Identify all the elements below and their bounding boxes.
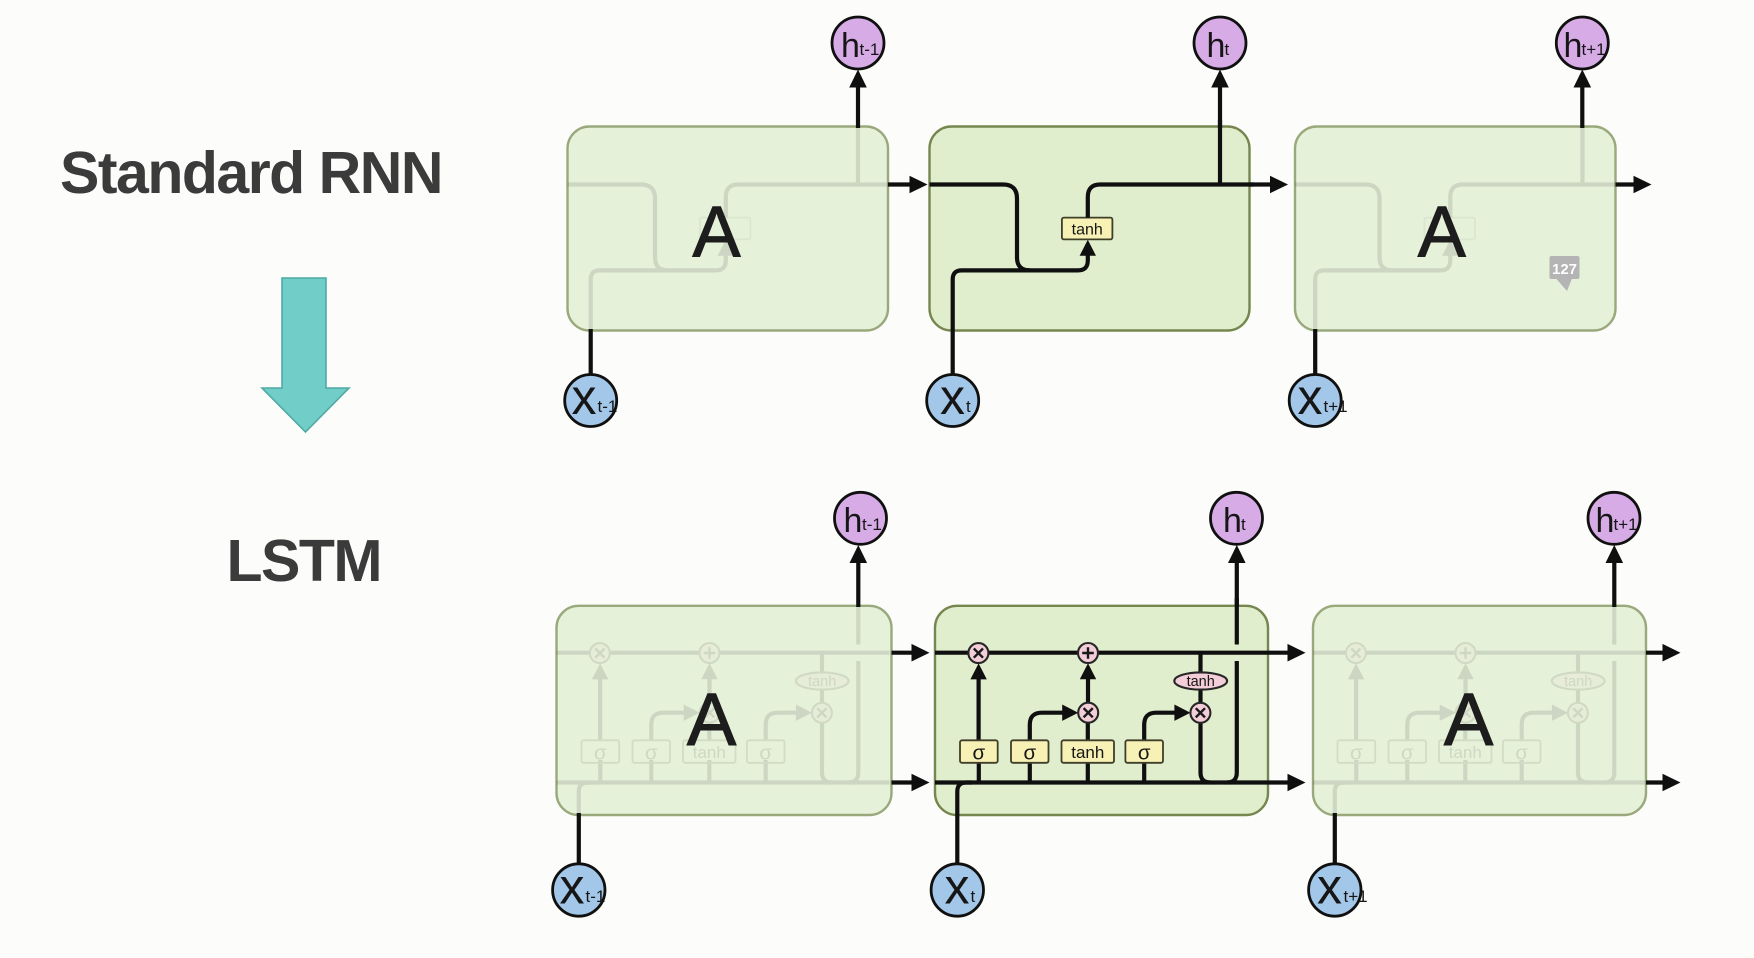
wire: x(t-1) connector into cell bbox=[589, 329, 593, 375]
svg-text:x: x bbox=[940, 369, 965, 425]
svg-text:σ: σ bbox=[1515, 742, 1528, 765]
wire: x input rising and feeding tanh in RNN cell t-1 (faded) bbox=[591, 254, 726, 375]
svg-text:σ: σ bbox=[1138, 742, 1151, 765]
wire: riser to forget gate sigma in LSTM cell t bbox=[977, 760, 981, 783]
wire: riser to output gate sigma in LSTM cell t+1 (faded) bbox=[1520, 760, 1524, 783]
svg-text:A: A bbox=[1418, 193, 1466, 273]
svg-text:t: t bbox=[1225, 40, 1230, 59]
svg-text:A: A bbox=[1444, 678, 1494, 761]
LSTM cell A (t-1), faded bbox=[557, 606, 892, 815]
svg-text:σ: σ bbox=[594, 742, 607, 765]
wire: x(t-1) connector into LSTM cell bbox=[577, 813, 581, 864]
wire: riser to tanh box in LSTM cell t+1 (faded) bbox=[1463, 760, 1467, 783]
wire: forget gate sigma up to multiply node in LSTM cell t+1 (faded) bbox=[1354, 678, 1358, 740]
wire: riser to input gate sigma in LSTM cell t-1 (faded) bbox=[649, 760, 653, 783]
wire: hidden state bottom line in LSTM cell t bbox=[935, 780, 1268, 784]
svg-text:t+1: t+1 bbox=[1324, 397, 1348, 416]
pointwise add node on cell line in LSTM cell t-1 (faded) bbox=[700, 643, 720, 663]
gate box sigma (forget) in LSTM cell t bbox=[960, 740, 998, 763]
wire+arrow: RNN cell t-1 output to cell t bbox=[888, 182, 910, 186]
wire: x(t+1) connector into LSTM cell bbox=[1333, 813, 1337, 864]
wire: forget gate sigma up to multiply node in LSTM cell t bbox=[976, 678, 980, 740]
wire: h branch lower segment with crossover gap in LSTM cell t-1 (faded) bbox=[848, 661, 858, 783]
tanh ellipse on output path in LSTM cell t bbox=[1174, 672, 1227, 689]
annotation badge 127 bbox=[1550, 256, 1580, 291]
wire: tanh ellipse down to output multiply in LSTM cell t-1 (faded) bbox=[820, 690, 824, 703]
pointwise multiply node on cell line in LSTM cell t-1 (faded) bbox=[590, 643, 610, 663]
svg-text:x: x bbox=[560, 859, 585, 915]
svg-text:h: h bbox=[1596, 502, 1615, 540]
wire: branch up toward h output in RNN cell t+1 (faded) bbox=[1580, 120, 1584, 185]
wire: input gate sigma curving into multiply node in LSTM cell t+1 (faded) bbox=[1407, 713, 1440, 741]
node xt+1 (LSTM diagram) bbox=[1309, 864, 1361, 916]
wire: x input joining bottom line in LSTM cell t bbox=[957, 783, 972, 864]
wire: tanh ellipse down to output multiply in LSTM cell t+1 (faded) bbox=[1576, 690, 1580, 703]
pointwise multiply node (output) in LSTM cell t+1 (faded) bbox=[1568, 703, 1588, 723]
wire: output gate sigma curving into output multiply in LSTM cell t bbox=[1144, 713, 1175, 741]
wire+arrow: RNN cell t output to cell t+1 bbox=[1250, 182, 1271, 186]
gate box tanh in LSTM cell t bbox=[1062, 740, 1115, 763]
svg-text:t+1: t+1 bbox=[1614, 515, 1638, 534]
svg-text:σ: σ bbox=[1401, 742, 1414, 765]
wire: output multiply down to bottom line in LSTM cell t bbox=[1201, 723, 1211, 783]
gate box sigma (forget) in LSTM cell t+1 (faded) bbox=[1338, 740, 1376, 763]
wire: forget gate sigma up to multiply node in LSTM cell t-1 (faded) bbox=[598, 678, 602, 740]
gate box sigma (output) in LSTM cell t-1 (faded) bbox=[747, 740, 785, 763]
node xt-1 (LSTM diagram) bbox=[553, 864, 605, 916]
node ht-1 (top diagram) bbox=[832, 17, 884, 69]
svg-text:A: A bbox=[687, 678, 737, 761]
wire: riser to output gate sigma in LSTM cell t bbox=[1142, 760, 1146, 783]
svg-text:σ: σ bbox=[1350, 742, 1363, 765]
gate box sigma (forget) in LSTM cell t-1 (faded) bbox=[582, 740, 620, 763]
pointwise multiply node on cell line in LSTM cell t bbox=[968, 643, 988, 663]
gate box sigma (input) in LSTM cell t bbox=[1011, 740, 1049, 763]
wire: h branch upper segment rising to h output in LSTM cell t bbox=[1235, 598, 1239, 645]
wire: tanh box up to multiply node in LSTM cell t-1 (faded) bbox=[707, 723, 711, 741]
pointwise multiply node (output) in LSTM cell t bbox=[1190, 703, 1210, 723]
svg-text:tanh: tanh bbox=[1187, 674, 1215, 690]
wire+arrow: LSTM t cell state to cell t+1 bbox=[1268, 651, 1288, 655]
wire: output gate sigma curving into output multiply in LSTM cell t-1 (faded) bbox=[766, 713, 797, 741]
tanh ellipse on output path in LSTM cell t-1 (faded) bbox=[796, 672, 849, 689]
wire: riser to forget gate sigma in LSTM cell t-1 (faded) bbox=[598, 760, 602, 783]
gate box sigma (output) in LSTM cell t+1 (faded) bbox=[1503, 740, 1541, 763]
wire: cell state branch down into tanh ellipse in LSTM cell t-1 (faded) bbox=[820, 653, 824, 673]
svg-text:t: t bbox=[971, 887, 976, 906]
wire+arrow: up to h(t) bbox=[1218, 87, 1222, 128]
svg-text:t-1: t-1 bbox=[586, 887, 606, 906]
wire: input gate sigma curving into multiply node in LSTM cell t-1 (faded) bbox=[651, 713, 684, 741]
svg-text:t: t bbox=[966, 397, 971, 416]
wire: x(t+1) connector into cell bbox=[1313, 329, 1317, 375]
LSTM cell A (t+1), faded bbox=[1313, 606, 1646, 815]
svg-text:127: 127 bbox=[1552, 261, 1577, 278]
wire+arrow: up to h(t-1) bbox=[856, 87, 860, 128]
svg-text:σ: σ bbox=[759, 742, 772, 765]
wire: h branch upper segment rising to h output in LSTM cell t+1 (faded) bbox=[1612, 598, 1616, 645]
svg-text:t-1: t-1 bbox=[862, 515, 882, 534]
RNN cell A (t-1), faded bbox=[568, 127, 889, 331]
tanh ellipse on output path in LSTM cell t+1 (faded) bbox=[1552, 672, 1605, 689]
node xt (LSTM diagram) bbox=[931, 864, 983, 916]
svg-text:h: h bbox=[1223, 502, 1242, 540]
gate box sigma (input) in LSTM cell t+1 (faded) bbox=[1389, 740, 1427, 763]
activation box tanh in RNN cell t+1 (faded) bbox=[1424, 218, 1475, 240]
wire: riser to tanh box in LSTM cell t-1 (faded) bbox=[707, 760, 711, 783]
wire: h branch upper segment rising to h output in LSTM cell t-1 (faded) bbox=[856, 598, 860, 645]
wire: h branch lower segment with crossover gap in LSTM cell t bbox=[1227, 661, 1237, 783]
big teal down arrow bbox=[262, 278, 349, 432]
pointwise multiply node (input x candidate) in LSTM cell t-1 (faded) bbox=[700, 703, 720, 723]
wire: input gate sigma curving into multiply node in LSTM cell t bbox=[1030, 713, 1063, 741]
wire: riser to input gate sigma in LSTM cell t bbox=[1028, 760, 1032, 783]
node ht (top diagram) bbox=[1194, 17, 1246, 69]
wire: x input joining bottom line in LSTM cell t-1 (faded) bbox=[579, 783, 594, 864]
wire: h input line entering RNN cell t-1 (faded) bbox=[568, 185, 669, 271]
wire: x input rising and feeding tanh in RNN cell t bbox=[953, 254, 1088, 375]
node ht (LSTM diagram) bbox=[1211, 492, 1263, 544]
wire: multiply node up to add node in LSTM cell t-1 (faded) bbox=[707, 678, 711, 703]
wire: h branch lower segment with crossover gap in LSTM cell t+1 (faded) bbox=[1604, 661, 1614, 783]
wire: branch up toward h output in RNN cell t bbox=[1218, 120, 1222, 185]
wire+arrow: up to h(t) bottom bbox=[1235, 562, 1239, 606]
node xt+1 (top diagram) bbox=[1289, 375, 1341, 427]
svg-text:A: A bbox=[692, 193, 740, 273]
wire+arrow: up to h(t+1) bottom bbox=[1612, 562, 1616, 607]
wire: multiply node up to add node in LSTM cell t+1 (faded) bbox=[1463, 678, 1467, 703]
svg-text:σ: σ bbox=[1023, 742, 1036, 765]
wire: h input line entering RNN cell t bbox=[930, 185, 1031, 271]
svg-text:h: h bbox=[844, 502, 863, 540]
LSTM cell A (t), active middle cell bbox=[935, 606, 1268, 815]
wire: tanh box up to multiply node in LSTM cell t bbox=[1086, 723, 1090, 741]
wire: output multiply down to bottom line in LSTM cell t+1 (faded) bbox=[1578, 723, 1588, 783]
wire: x input joining bottom line in LSTM cell t+1 (faded) bbox=[1335, 783, 1350, 864]
svg-text:σ: σ bbox=[972, 742, 985, 765]
node xt (top diagram) bbox=[927, 375, 979, 427]
gate box tanh in LSTM cell t+1 (faded) bbox=[1439, 740, 1492, 763]
svg-text:t-1: t-1 bbox=[598, 397, 618, 416]
wire+arrow: RNN cell t+1 output rightward bbox=[1616, 182, 1635, 186]
wire+arrow: LSTM t+1 hidden state rightward bbox=[1646, 780, 1663, 784]
node ht+1 (LSTM diagram) bbox=[1588, 492, 1640, 544]
svg-text:h: h bbox=[841, 27, 860, 65]
wire: riser to forget gate sigma in LSTM cell t+1 (faded) bbox=[1354, 760, 1358, 783]
wire+arrow: LSTM t-1 cell state to cell t bbox=[892, 651, 912, 655]
wire: cell state line C in LSTM cell t-1 (faded) bbox=[557, 651, 890, 655]
svg-text:x: x bbox=[1317, 859, 1342, 915]
pointwise multiply node on cell line in LSTM cell t+1 (faded) bbox=[1346, 643, 1366, 663]
wire+arrow: LSTM t+1 cell state rightward bbox=[1646, 651, 1663, 655]
wire: cell state line C in LSTM cell t bbox=[935, 651, 1268, 655]
svg-text:LSTM: LSTM bbox=[227, 528, 382, 594]
svg-text:σ: σ bbox=[645, 742, 658, 765]
wire: tanh box up to multiply node in LSTM cell t+1 (faded) bbox=[1463, 723, 1467, 741]
wire+arrow: up to h(t-1) bottom bbox=[856, 562, 860, 607]
wire: hidden state bottom line in LSTM cell t+1 (faded) bbox=[1313, 780, 1646, 784]
wire: tanh output line to next cell in RNN cell t-1 (faded) bbox=[726, 185, 892, 218]
wire: h input line entering RNN cell t+1 (faded) bbox=[1292, 185, 1393, 271]
pointwise multiply node (input x candidate) in LSTM cell t bbox=[1078, 703, 1098, 723]
svg-text:h: h bbox=[1207, 27, 1226, 65]
pointwise add node on cell line in LSTM cell t+1 (faded) bbox=[1456, 643, 1476, 663]
wire: riser to input gate sigma in LSTM cell t+1 (faded) bbox=[1405, 760, 1409, 783]
wire: multiply node up to add node in LSTM cell t bbox=[1086, 678, 1090, 703]
wire: tanh ellipse down to output multiply in LSTM cell t bbox=[1198, 690, 1202, 703]
activation box tanh in RNN cell t bbox=[1062, 218, 1113, 240]
wire: tanh output line to next cell in RNN cell t+1 (faded) bbox=[1450, 185, 1616, 218]
activation box tanh in RNN cell t-1 (faded) bbox=[700, 218, 751, 240]
svg-text:Standard RNN: Standard RNN bbox=[60, 140, 442, 206]
wire: tanh output line to next cell in RNN cell t bbox=[1088, 185, 1254, 218]
svg-text:tanh: tanh bbox=[808, 674, 836, 690]
wire+arrow: LSTM t-1 hidden state to cell t bbox=[892, 780, 912, 784]
svg-text:t: t bbox=[1241, 515, 1246, 534]
pointwise add node on cell line in LSTM cell t bbox=[1078, 643, 1098, 663]
svg-text:x: x bbox=[1298, 369, 1323, 425]
wire: cell state branch down into tanh ellipse in LSTM cell t bbox=[1198, 653, 1202, 673]
node ht-1 (LSTM diagram) bbox=[835, 492, 887, 544]
wire: riser to tanh box in LSTM cell t bbox=[1086, 760, 1090, 783]
svg-text:x: x bbox=[572, 369, 597, 425]
svg-text:x: x bbox=[945, 859, 970, 915]
node xt-1 (top diagram) bbox=[565, 375, 617, 427]
wire: cell state line C in LSTM cell t+1 (faded) bbox=[1313, 651, 1646, 655]
wire: output multiply down to bottom line in LSTM cell t-1 (faded) bbox=[822, 723, 832, 783]
gate box sigma (input) in LSTM cell t-1 (faded) bbox=[633, 740, 671, 763]
RNN cell A (t+1), faded bbox=[1295, 127, 1616, 331]
svg-text:tanh: tanh bbox=[1071, 743, 1104, 762]
svg-text:tanh: tanh bbox=[1564, 674, 1592, 690]
svg-text:tanh: tanh bbox=[1072, 222, 1103, 239]
wire+arrow: LSTM t hidden state to cell t+1 bbox=[1268, 780, 1288, 784]
wire+arrow: up to h(t+1) bbox=[1580, 87, 1584, 128]
pointwise multiply node (output) in LSTM cell t-1 (faded) bbox=[812, 703, 832, 723]
RNN cell A (t), active middle cell bbox=[930, 127, 1250, 331]
svg-text:t+1: t+1 bbox=[1582, 40, 1606, 59]
wire: hidden state bottom line in LSTM cell t-1 (faded) bbox=[557, 780, 890, 784]
node ht+1 (top diagram) bbox=[1556, 17, 1608, 69]
pointwise multiply node (input x candidate) in LSTM cell t+1 (faded) bbox=[1456, 703, 1476, 723]
wire: branch up toward h output in RNN cell t-1 (faded) bbox=[856, 120, 860, 185]
wire: riser to output gate sigma in LSTM cell t-1 (faded) bbox=[764, 760, 768, 783]
wire: cell state branch down into tanh ellipse in LSTM cell t+1 (faded) bbox=[1576, 653, 1580, 673]
gate box sigma (output) in LSTM cell t bbox=[1125, 740, 1163, 763]
svg-text:t-1: t-1 bbox=[860, 40, 880, 59]
svg-text:h: h bbox=[1564, 27, 1583, 65]
svg-text:t+1: t+1 bbox=[1344, 887, 1368, 906]
gate box tanh in LSTM cell t-1 (faded) bbox=[683, 740, 736, 763]
wire: output gate sigma curving into output multiply in LSTM cell t+1 (faded) bbox=[1522, 713, 1553, 741]
wire: x input rising and feeding tanh in RNN cell t+1 (faded) bbox=[1315, 254, 1450, 375]
